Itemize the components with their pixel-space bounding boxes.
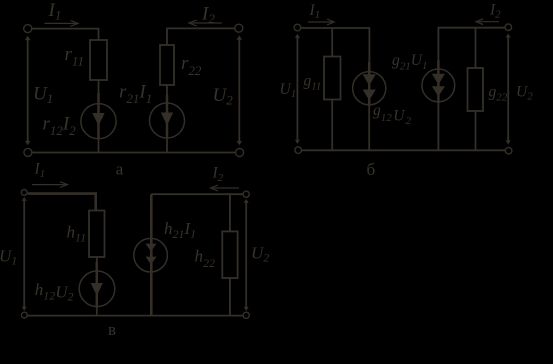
current arrow I2 (b) (479, 21, 500, 23)
current source h21I1 arrowheads (145, 244, 156, 252)
voltage arrow U2 (v) (245, 200, 247, 310)
current arrow I1 (b) (308, 21, 333, 23)
EMF source r12I2 circle (81, 104, 116, 139)
bottom rail (v) (27, 315, 243, 317)
resistor r11 (90, 40, 107, 80)
current arrow I2 (v) (213, 187, 239, 189)
terminal 1' bottom-left (b) (295, 147, 302, 154)
terminal 1 top-left (v) (21, 190, 27, 196)
terminal 2' bottom-right (b) (505, 147, 512, 154)
wire r11 to source (a) (98, 80, 100, 104)
wire h22 to bottom rail (v) (229, 278, 231, 316)
wire top-left to h11 branch (v) (28, 194, 96, 211)
wire top-left to g12 branch (b) (301, 28, 370, 72)
EMF source h12U2 circle (79, 271, 115, 307)
terminal 2 top-right (v) (243, 191, 249, 197)
voltage arrow U1 (b) (296, 36, 298, 142)
svg-text:б: б (367, 160, 376, 179)
EMF source r12I2 arrow shaft (97, 93, 100, 138)
wire top-right to h21 branch (v) (151, 193, 243, 195)
voltage arrow U2 (b) (507, 36, 509, 143)
EMF source h12U2 arrowhead (91, 283, 103, 296)
current source g12U2 arrowheads (363, 74, 376, 85)
EMF source r21I1 arrow shaft (166, 95, 169, 138)
resistor h11 (89, 211, 105, 258)
svg-text:в: в (108, 320, 116, 339)
EMF source r21I1 circle (150, 103, 185, 138)
current source g21U1 arrowheads (432, 74, 445, 85)
wire g12 source to bottom rail (b) (368, 105, 370, 151)
terminal 1' bottom-left (a) (24, 148, 32, 156)
voltage arrow U1 (a) (27, 39, 29, 143)
current arrow I1 (a) (45, 22, 78, 24)
current source g21U1 arrow shaft (437, 60, 440, 103)
resistor g11 (324, 57, 341, 100)
wire g11 branch top (b) (331, 28, 333, 57)
wire source to bottom rail (a) (98, 139, 100, 153)
voltage arrow U1 (v) (23, 199, 25, 310)
EMF source r12I2 arrowhead (92, 113, 104, 126)
EMF source r21I1 arrowhead (161, 113, 173, 126)
current arrow I1 (v) (32, 184, 67, 186)
wire g22 branch top (b) (475, 28, 477, 68)
wire source to bottom rail right (a) (166, 138, 168, 153)
resistor r22 (160, 45, 174, 85)
wire source to bottom rail (v) (96, 307, 98, 316)
current source g12U2 circle (353, 72, 386, 105)
terminal 1 top-left (b) (294, 24, 301, 31)
wire g11 to bottom rail (b) (331, 100, 333, 151)
terminal 1 top-left (a) (24, 25, 32, 33)
current source g12U2 arrow shaft (368, 62, 371, 106)
bottom rail (b) (301, 149, 505, 151)
wire r22 to source (a) (166, 85, 168, 104)
terminal 2 top-right (b) (505, 24, 512, 31)
EMF source h12U2 arrow shaft (96, 262, 99, 306)
current source g21U1 circle (422, 69, 455, 102)
resistor h22 (222, 231, 237, 278)
terminal 2 top-right (a) (235, 24, 243, 32)
wire top-right to g21 branch (b) (438, 28, 504, 69)
svg-text:а: а (116, 160, 124, 179)
wire top-left to r11 branch (a) (31, 29, 99, 40)
terminal 1' bottom-left (v) (21, 312, 27, 318)
current arrow I2 (a) (191, 22, 222, 24)
terminal 2' bottom-right (a) (236, 149, 244, 157)
bottom rail (a) (31, 152, 236, 154)
resistor g22 (468, 68, 484, 111)
terminal 2' bottom-right (v) (243, 312, 249, 318)
wire top-right to r22 branch (a) (167, 28, 235, 45)
current source h21I1 branch wire (150, 194, 153, 315)
voltage arrow U2 (a) (238, 38, 240, 143)
wire g21 source to bottom rail (b) (437, 102, 439, 151)
current source h21I1 circle (134, 238, 168, 272)
wire h22 branch top (v) (229, 194, 231, 231)
wire h11 to source (v) (96, 257, 98, 272)
wire g22 to bottom rail (b) (475, 111, 477, 151)
